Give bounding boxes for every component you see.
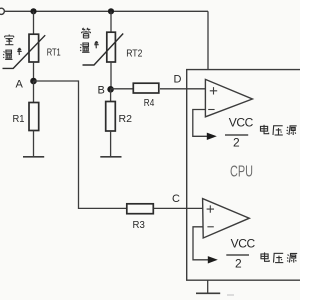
op-amp U2 — [203, 199, 250, 238]
CPU box — [187, 70, 302, 281]
svg-text:2: 2 — [235, 256, 242, 270]
wire: CPU box to ground — [207, 280, 209, 293]
op-amp U1 — [205, 79, 252, 116]
svg-text:D: D — [174, 74, 182, 86]
ground (R1) — [23, 156, 44, 158]
svg-text:C: C — [172, 193, 180, 205]
wire: RT1 to node A — [33, 62, 35, 81]
svg-text:R1: R1 — [13, 113, 25, 125]
svg-text:B: B — [98, 85, 105, 97]
wire: node A loop to R3 — [34, 81, 128, 208]
svg-text:VCC: VCC — [229, 115, 254, 129]
resistor R2 — [106, 89, 116, 131]
label VCC/2 (U1) — [225, 115, 254, 149]
thermistor RT1 — [3, 34, 46, 68]
label 室温 (room temperature) — [3, 35, 14, 60]
wire: U1 feedback to VCC/2 — [193, 110, 208, 137]
arrow to VCC/2 (U2) — [208, 256, 218, 263]
svg-text:R2: R2 — [119, 113, 133, 125]
wire: rail drop to CPU box top — [207, 11, 209, 69]
label 管温 (pipe temperature) — [80, 28, 90, 52]
wire: R1 to ground — [33, 131, 35, 157]
svg-text:R4: R4 — [144, 97, 155, 109]
wire: U2 feedback to VCC/2 — [193, 227, 209, 260]
wire: R4 to comparator U1 input — [160, 88, 206, 90]
resistor R3 — [127, 204, 154, 214]
wire: top supply rail — [5, 10, 209, 12]
svg-text:R3: R3 — [133, 219, 145, 231]
label VCC/2 (U2) — [226, 237, 255, 271]
label 电压源 (voltage source, U1) — [260, 125, 296, 135]
svg-text:RT2: RT2 — [126, 47, 142, 59]
wire: node B to R4 — [111, 88, 134, 90]
svg-text:VCC: VCC — [231, 237, 256, 251]
svg-text:CPU: CPU — [230, 164, 253, 181]
t-rise arrow (RT2) — [94, 41, 98, 48]
wire: rail to RT2 — [110, 11, 112, 32]
wire: rail to RT1 — [33, 11, 35, 34]
wire: R3 to comparator U2 input — [154, 207, 203, 209]
ground (CPU) — [196, 292, 220, 294]
svg-text:A: A — [16, 79, 24, 91]
resistor R4 — [133, 83, 159, 93]
svg-text:2: 2 — [233, 136, 240, 150]
ground (R2) — [100, 156, 121, 158]
node A — [30, 78, 37, 85]
input terminal (left circle) — [0, 8, 4, 14]
arrow to VCC/2 (U1) — [207, 133, 217, 140]
junction dot: top rail / RT1 — [30, 8, 36, 14]
faint watermark dash — [227, 294, 234, 296]
wire: R2 to ground — [110, 131, 112, 157]
wire: RT2 to node B — [110, 62, 112, 89]
thermistor RT2 — [83, 32, 124, 65]
node B — [107, 86, 114, 93]
label 电压源 (voltage source, U2) — [261, 252, 297, 262]
t-rise arrow (RT1) — [17, 48, 21, 55]
junction dot: top rail / RT2 — [108, 8, 114, 14]
resistor R1 — [29, 81, 39, 131]
svg-text:RT1: RT1 — [47, 47, 61, 59]
